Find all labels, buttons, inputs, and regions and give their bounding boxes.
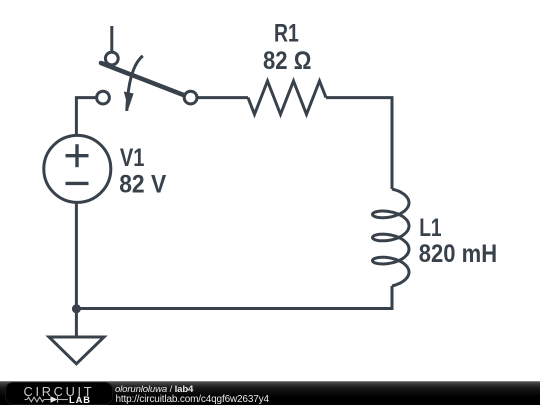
svg-text:L1: L1: [419, 214, 441, 242]
switch SW1 actuation arrow: [127, 56, 143, 111]
footer credit text: [115, 384, 193, 395]
wire switch B to V1 top corner: [76, 98, 96, 136]
resistor R1 zigzag: [248, 81, 326, 114]
switch SW1 terminal C (right common): [184, 91, 197, 104]
svg-text:82 V: 82 V: [119, 171, 166, 199]
svg-text:820 mH: 820 mH: [419, 240, 497, 268]
wire R1 to top-right corner and down: [326, 98, 392, 189]
wire switch C to resistor R1: [197, 96, 248, 99]
CircuitLab logo: [0, 381, 110, 405]
footer bar: [0, 381, 540, 405]
wire junction to ground: [75, 309, 78, 337]
junction dot node: [72, 304, 81, 313]
switch SW1 terminal B (lower-left): [97, 91, 110, 104]
inductor L1 coil: [373, 189, 410, 286]
wire L1 bottom to corner and along bottom: [76, 286, 392, 309]
voltage source V1 circle: [44, 135, 111, 202]
switch arrow head: [124, 92, 134, 109]
wire top stub to switch throw A: [110, 26, 113, 52]
svg-text:82 Ω: 82 Ω: [263, 47, 311, 75]
switch SW1 terminal A (top): [105, 52, 118, 65]
ground symbol: [49, 337, 104, 364]
logo pill: [6, 383, 112, 404]
switch SW1 lever: [101, 63, 184, 95]
svg-text:LAB: LAB: [69, 394, 91, 405]
svg-text:V1: V1: [120, 144, 145, 172]
wire V1 bottom to ground junction: [75, 201, 78, 309]
svg-text:R1: R1: [274, 20, 299, 48]
V1 plus sign: [66, 154, 89, 157]
V1 minus sign: [66, 182, 89, 185]
